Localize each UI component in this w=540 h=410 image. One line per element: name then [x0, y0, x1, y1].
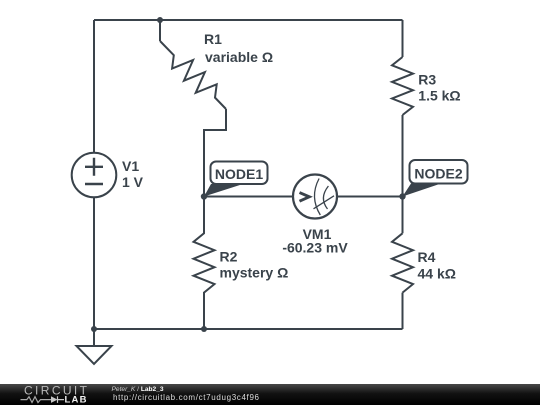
svg-text:R3: R3 — [418, 72, 436, 88]
svg-text:http://circuitlab.com/ct7udug3: http://circuitlab.com/ct7udug3c4f96 — [113, 393, 260, 402]
svg-text:mystery Ω: mystery Ω — [220, 265, 289, 281]
svg-text:1.5 kΩ: 1.5 kΩ — [418, 88, 460, 104]
wire bottom rail — [94, 328, 403, 330]
svg-text:V1: V1 — [122, 158, 139, 174]
node A junction dot NODE1 — [201, 193, 207, 199]
node NODE2 flag — [403, 160, 468, 197]
voltage source V1 — [72, 153, 117, 198]
junction dot ground — [91, 326, 97, 332]
svg-text:NODE2: NODE2 — [414, 166, 462, 182]
wire node1 to voltmeter — [204, 196, 293, 198]
junction dot top rail / R1 — [157, 17, 163, 23]
svg-text:1 V: 1 V — [122, 174, 144, 190]
ground — [77, 329, 112, 364]
CircuitLab logo squiggle resistor — [21, 397, 52, 403]
CircuitLab logo diode — [51, 396, 64, 403]
wire R1 bottom jog to node1 — [204, 109, 226, 197]
resistor R3 zigzag — [392, 57, 413, 115]
footer bar — [0, 384, 540, 405]
wire node2 to R4 — [402, 197, 404, 234]
voltmeter VM1 — [293, 175, 337, 219]
wire R1 top stub — [159, 20, 161, 41]
wire V1 bottom to bottom rail — [93, 197, 95, 329]
wire top rail — [94, 19, 403, 21]
node NODE1 flag — [204, 162, 268, 197]
svg-text:NODE1: NODE1 — [215, 166, 263, 182]
svg-text:-60.23 mV: -60.23 mV — [282, 240, 348, 256]
svg-text:R2: R2 — [220, 249, 238, 265]
svg-text:44 kΩ: 44 kΩ — [418, 266, 456, 282]
svg-text:LAB: LAB — [65, 395, 89, 406]
wire R3 bottom to node2 — [402, 115, 404, 197]
svg-text:R1: R1 — [204, 31, 222, 47]
wire left vertical (top rail to V1) — [93, 20, 95, 153]
resistor R1 zigzag — [160, 41, 226, 109]
wire R4 bottom to bottom rail — [402, 293, 404, 329]
node B junction dot NODE2 — [399, 193, 405, 199]
svg-text:R4: R4 — [418, 249, 436, 265]
wire right vertical top (rail to R3) — [402, 20, 404, 57]
resistor R2 zigzag — [194, 197, 215, 330]
svg-text:variable Ω: variable Ω — [205, 49, 273, 65]
junction dot R2 bottom — [201, 326, 207, 332]
resistor R4 zigzag — [392, 233, 413, 292]
wire voltmeter to node2 — [337, 196, 403, 198]
svg-text:Peter_K / Lab2_3: Peter_K / Lab2_3 — [112, 386, 164, 393]
